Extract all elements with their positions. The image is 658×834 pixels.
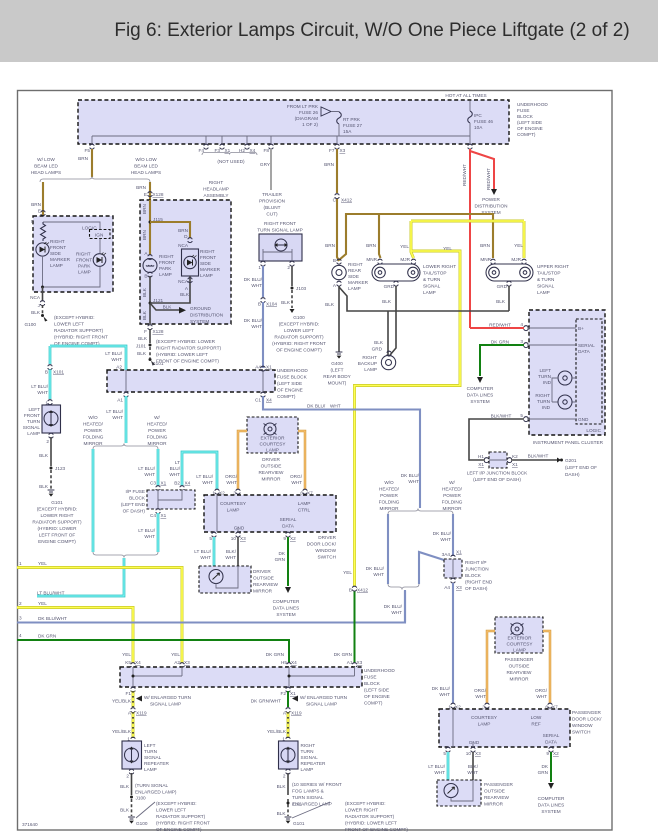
svg-text:BLK/: BLK/ (226, 549, 237, 554)
svg-text:LAMP: LAMP (78, 270, 91, 275)
wire BLK lamp to J123/G101 (49, 433, 53, 438)
svg-text:GRD: GRD (384, 284, 395, 289)
svg-text:6: 6 (300, 491, 303, 496)
svg-text:X128: X128 (153, 329, 164, 334)
svg-text:(LEFT END: (LEFT END (121, 502, 146, 507)
svg-text:LAMP: LAMP (50, 263, 63, 268)
wire BRN bus to tail lamps (339, 214, 493, 260)
svg-text:LT BLU/: LT BLU/ (138, 466, 155, 471)
svg-text:RED/WHT: RED/WHT (489, 323, 511, 328)
svg-text:LT BLU/: LT BLU/ (106, 409, 123, 414)
svg-text:WHT: WHT (200, 555, 211, 560)
svg-text:NCA: NCA (178, 279, 189, 284)
svg-text:(EXCEPT HYBRID:: (EXCEPT HYBRID: (54, 315, 95, 320)
svg-text:5: 5 (209, 536, 212, 541)
box courtesy lamp / lamp ctrl (driver door switch) (204, 495, 336, 532)
svg-text:SIGNAL LAMP: SIGNAL LAMP (150, 702, 181, 707)
svg-text:YEL: YEL (122, 652, 131, 657)
lamp right turn indicator (558, 395, 572, 409)
svg-text:F1: F1 (126, 691, 132, 696)
svg-text:REPEATER: REPEATER (301, 761, 327, 766)
stubs (261, 261, 265, 266)
wire branch w/ heated to C3 (157, 449, 160, 486)
svg-text:DK BLU/: DK BLU/ (244, 318, 263, 323)
svg-text:4: 4 (19, 633, 22, 638)
stub C1/X4 bottom right (261, 392, 265, 397)
svg-text:DK GRN: DK GRN (491, 340, 509, 345)
svg-text:G101: G101 (51, 500, 63, 505)
svg-text:PASSENGER: PASSENGER (484, 782, 513, 787)
svg-text:UNDERHOOD: UNDERHOOD (277, 368, 308, 373)
svg-text:BRN: BRN (366, 243, 376, 248)
brace split head lamps (40, 177, 150, 183)
wire LT BLU/WHT pin5 to mirror (213, 537, 216, 566)
svg-text:TURN: TURN (27, 419, 40, 424)
svg-text:LAMP: LAMP (513, 648, 526, 653)
wire DK GRN pin9 to data lines (550, 752, 552, 782)
box passenger outside rearview mirror (437, 780, 481, 806)
svg-text:MIRROR: MIRROR (261, 477, 281, 482)
svg-text:OUTSIDE: OUTSIDE (253, 576, 274, 581)
svg-text:F5: F5 (85, 148, 91, 153)
wire BLK J121 branch to ground dist arrow (150, 303, 179, 310)
svg-text:LT BLU/: LT BLU/ (105, 351, 122, 356)
svg-text:WINDOW: WINDOW (572, 723, 593, 728)
svg-text:FRONT: FRONT (24, 413, 40, 418)
svg-text:BRN: BRN (324, 162, 334, 167)
svg-text:OUTSIDE: OUTSIDE (484, 789, 505, 794)
svg-text:WHT: WHT (251, 324, 262, 329)
svg-text:X128: X128 (153, 192, 164, 197)
svg-text:TRAILER: TRAILER (262, 192, 282, 197)
svg-text:X3: X3 (240, 536, 246, 541)
svg-text:WHT: WHT (169, 472, 180, 477)
wire BLK ground bus of tail lamps (339, 286, 509, 355)
wire fuse 27 to bus (338, 124, 340, 136)
svg-text:G201: G201 (565, 458, 577, 463)
bottom stubs (446, 747, 450, 752)
svg-text:HEAD LAMPS: HEAD LAMPS (131, 170, 161, 175)
svg-text:X1: X1 (266, 365, 272, 370)
svg-text:MARKER: MARKER (348, 280, 369, 285)
svg-text:YEL: YEL (38, 601, 47, 606)
box right front turn signal lamp (259, 234, 302, 261)
svg-text:C3: C3 (150, 481, 156, 486)
wire branch w/ heated into junction block (452, 514, 454, 556)
svg-text:GRY: GRY (260, 162, 271, 167)
bus drops F5,F4,F3/X1,H2/X4,F8,F7 (92, 136, 337, 144)
svg-text:YEL: YEL (443, 246, 452, 251)
svg-text:JUNCTION: JUNCTION (465, 567, 489, 572)
svg-text:GRD: GRD (497, 284, 508, 289)
svg-text:YEL/BLK: YEL/BLK (112, 699, 132, 704)
svg-text:X3: X3 (456, 585, 462, 590)
svg-text:DK GRN: DK GRN (266, 652, 284, 657)
svg-text:SIGNAL: SIGNAL (301, 755, 319, 760)
svg-text:LAMP: LAMP (27, 431, 40, 436)
svg-text:FUSE BLOCK: FUSE BLOCK (277, 375, 308, 380)
svg-text:SYSTEM: SYSTEM (541, 809, 560, 814)
svg-text:(BLUNT: (BLUNT (264, 205, 281, 210)
svg-text:15A: 15A (343, 129, 352, 134)
svg-text:X119: X119 (291, 711, 302, 716)
svg-text:LEFT: LEFT (29, 407, 41, 412)
svg-text:HEATED/: HEATED/ (442, 487, 463, 492)
svg-text:BLK: BLK (120, 808, 130, 813)
svg-text:(DIAGRAM: (DIAGRAM (295, 116, 319, 121)
svg-text:J: J (38, 303, 40, 308)
wire YEL tail lamp bus (355, 221, 525, 586)
svg-text:2: 2 (126, 774, 129, 779)
svg-text:WHT: WHT (225, 555, 236, 560)
svg-text:DK GRN: DK GRN (334, 652, 352, 657)
svg-text:RIGHT RADIATOR SUPPORT): RIGHT RADIATOR SUPPORT) (156, 346, 221, 351)
svg-text:G100: G100 (25, 322, 37, 327)
svg-text:(EXCEPT HYBRID: LOWER: (EXCEPT HYBRID: LOWER (156, 339, 216, 344)
svg-text:BEAM LED: BEAM LED (34, 164, 58, 169)
svg-text:C4: C4 (150, 513, 156, 518)
svg-text:FUSE: FUSE (517, 108, 530, 113)
svg-text:FOLDING: FOLDING (147, 435, 168, 440)
courtesy lamp symbol (264, 423, 276, 435)
wire BLK/WHT cluster gnd (469, 419, 524, 460)
svg-text:DK BLU/: DK BLU/ (307, 404, 326, 409)
svg-text:LAMP: LAMP (364, 367, 377, 372)
svg-text:H1: H1 (478, 454, 484, 459)
svg-text:W/O LOW: W/O LOW (135, 157, 157, 162)
svg-text:BRN: BRN (142, 230, 147, 240)
svg-text:HEATED/: HEATED/ (379, 487, 400, 492)
svg-text:3: 3 (520, 339, 523, 344)
arrow computer data lines (477, 377, 483, 383)
box exterior courtesy lamp (passenger) (495, 617, 543, 653)
svg-text:X1: X1 (478, 462, 484, 467)
svg-text:CTRL: CTRL (298, 508, 311, 513)
svg-text:SWITCH: SWITCH (572, 730, 591, 735)
svg-text:B: B (144, 274, 147, 279)
svg-text:GROUND: GROUND (190, 306, 211, 311)
svg-text:W/ LOW: W/ LOW (37, 157, 55, 162)
svg-text:IGN: IGN (95, 233, 103, 238)
svg-text:TAIL/STOP: TAIL/STOP (423, 271, 447, 276)
svg-text:DK BLU/: DK BLU/ (433, 531, 452, 536)
svg-text:REARVIEW: REARVIEW (259, 470, 284, 475)
svg-text:(EXCEPT HYBRID:: (EXCEPT HYBRID: (345, 801, 386, 806)
svg-text:G100: G100 (293, 315, 305, 320)
svg-text:BACKUP: BACKUP (358, 361, 377, 366)
arrow w/ enlarged turn signal lamp (right) (292, 696, 298, 702)
box left turn signal repeater lamp (122, 741, 142, 769)
arrow w/ enlarged turn signal lamp (left) (136, 696, 142, 702)
connector A X119 (left) (131, 708, 135, 713)
svg-text:LAMP: LAMP (144, 767, 157, 772)
svg-text:ENGINE COMPT): ENGINE COMPT) (38, 539, 76, 544)
svg-text:DASH): DASH) (565, 472, 580, 477)
svg-text:REARVIEW: REARVIEW (484, 795, 509, 800)
svg-text:A1: A1 (117, 398, 123, 403)
resistor zigzag (41, 222, 46, 241)
box left front turn signal lamp (42, 405, 61, 433)
svg-text:UNDERHOOD: UNDERHOOD (364, 668, 395, 673)
svg-text:BLK: BLK (31, 310, 41, 315)
brace mirror merge (left) (93, 552, 158, 558)
svg-text:ORG/: ORG/ (535, 688, 548, 693)
pointer line to G101 (292, 802, 330, 818)
svg-text:ASSEMBLY: ASSEMBLY (204, 193, 230, 198)
svg-text:YEL/BLK: YEL/BLK (112, 729, 132, 734)
svg-text:LAMP: LAMP (227, 508, 240, 513)
wire DK BLU/WHT C1 across to mirrors (263, 396, 420, 508)
svg-text:MIRROR: MIRROR (509, 677, 529, 682)
wire DK GRN pin9 to data lines (287, 537, 289, 586)
svg-text:PASSENGER: PASSENGER (505, 657, 534, 662)
svg-text:LAMP: LAMP (301, 767, 314, 772)
wire BRN branch J115 to side marker (150, 222, 190, 238)
svg-text:E: E (38, 209, 41, 214)
box underhood fuse block bar 2 (120, 667, 362, 687)
(NOT USED) bracket (202, 153, 257, 156)
svg-text:X3: X3 (184, 660, 190, 665)
svg-text:RADIATOR SUPPORT): RADIATOR SUPPORT) (54, 328, 104, 333)
svg-text:LEFT: LEFT (540, 368, 552, 373)
svg-text:DOOR LOCK/: DOOR LOCK/ (307, 542, 337, 547)
svg-text:MIRROR: MIRROR (442, 506, 462, 511)
wire BLK LED to J121 (150, 276, 190, 303)
box inner LED side marker (182, 249, 199, 276)
svg-text:YEL: YEL (343, 570, 352, 575)
svg-text:EXTERIOR: EXTERIOR (508, 636, 533, 641)
svg-text:REAR BODY: REAR BODY (323, 374, 351, 379)
svg-text:J103: J103 (296, 286, 307, 291)
svg-text:(EXCEPT HYBRID:: (EXCEPT HYBRID: (156, 801, 197, 806)
svg-text:FRONT: FRONT (159, 260, 175, 265)
wire LT BLU/WHT pin5 to passenger mirror (447, 752, 450, 780)
stub F1 (131, 687, 135, 692)
svg-text:LAMP: LAMP (423, 290, 436, 295)
wire BLK to G101 (right repeater) (286, 769, 290, 774)
svg-text:RIGHT: RIGHT (50, 239, 65, 244)
svg-text:SYSTEM: SYSTEM (276, 612, 295, 617)
svg-text:WHT: WHT (475, 694, 486, 699)
svg-text:FUSE 27: FUSE 27 (343, 123, 362, 128)
svg-text:COURTESY: COURTESY (260, 442, 287, 447)
box driver outside rearview mirror (199, 566, 251, 593)
svg-text:(EXCEPT HYBRID:: (EXCEPT HYBRID: (279, 322, 320, 327)
svg-text:SIDE: SIDE (200, 261, 211, 266)
svg-text:LOWER RIGHT: LOWER RIGHT (423, 264, 456, 269)
wire BLK/WHT pin10 to mirror (237, 537, 239, 566)
wire DK BLU/WHT from pin1 (262, 266, 264, 297)
svg-text:X4: X4 (291, 660, 297, 665)
triangle off-page symbol (321, 107, 331, 116)
svg-text:X3: X3 (475, 751, 481, 756)
svg-text:BLK: BLK (281, 300, 291, 305)
svg-text:B: B (349, 588, 352, 593)
svg-text:GND: GND (234, 526, 245, 531)
svg-text:REF: REF (531, 722, 541, 727)
box right I/P junction block (451, 555, 455, 560)
svg-text:J123: J123 (55, 466, 66, 471)
underhood fuse block box (78, 100, 509, 144)
svg-text:FRONT: FRONT (76, 258, 92, 263)
lamp lower right tail/stop (378, 259, 382, 264)
svg-text:DATA: DATA (578, 349, 591, 354)
svg-text:(HYBRID: RIGHT FRONT: (HYBRID: RIGHT FRONT (156, 821, 210, 826)
svg-text:POWER: POWER (84, 428, 102, 433)
svg-text:LAMP: LAMP (298, 501, 311, 506)
svg-text:LAMP: LAMP (200, 273, 213, 278)
svg-text:RIGHT: RIGHT (209, 180, 224, 185)
wire BRN to side marker box (42, 182, 44, 226)
svg-text:TURN: TURN (301, 749, 314, 754)
wire ORG/WHT right (passenger) (543, 631, 550, 703)
svg-text:X119: X119 (136, 711, 147, 716)
svg-text:DOOR LOCK/: DOOR LOCK/ (572, 717, 602, 722)
svg-text:E: E (144, 192, 147, 197)
box right front side marker / park lamp (left) (33, 216, 113, 292)
svg-text:X4: X4 (266, 398, 272, 403)
svg-text:X1: X1 (161, 481, 167, 486)
svg-text:A4: A4 (255, 365, 261, 370)
svg-text:SERIAL: SERIAL (578, 343, 595, 348)
svg-text:FUSE 46: FUSE 46 (474, 119, 493, 124)
svg-text:LAMP: LAMP (266, 448, 279, 453)
svg-text:POWER: POWER (443, 493, 461, 498)
svg-text:RIGHT: RIGHT (301, 743, 316, 748)
svg-text:POWER: POWER (148, 428, 166, 433)
svg-text:YEL: YEL (400, 244, 409, 249)
svg-text:SIGNAL: SIGNAL (537, 284, 555, 289)
wire DK GRN serial data (480, 345, 524, 376)
svg-text:9: 9 (283, 536, 286, 541)
svg-text:DISTRIBUTION: DISTRIBUTION (190, 313, 223, 318)
wire BLK to G100 (left repeater) (129, 769, 133, 774)
svg-text:WHT: WHT (536, 694, 547, 699)
LED right front side marker lamp (36, 243, 49, 256)
svg-text:PROVISION: PROVISION (259, 199, 285, 204)
svg-text:YEL: YEL (38, 561, 47, 566)
svg-text:W/: W/ (449, 480, 455, 485)
svg-text:LT BLU/: LT BLU/ (196, 474, 213, 479)
svg-text:BRN: BRN (142, 204, 147, 214)
svg-text:& TURN: & TURN (537, 277, 554, 282)
svg-text:REAR: REAR (348, 268, 362, 273)
svg-text:CUT): CUT) (266, 212, 278, 217)
svg-text:WHT: WHT (202, 480, 213, 485)
svg-text:DATA: DATA (545, 740, 558, 745)
brace mirror merge (right) (388, 584, 419, 590)
wire LT BLU/WHT X101 to left turn lamp (50, 346, 126, 370)
svg-text:(LEFT SIDE: (LEFT SIDE (277, 381, 302, 386)
svg-text:BLK: BLK (277, 811, 287, 816)
svg-text:DATA LINES: DATA LINES (538, 803, 564, 808)
svg-text:(LEFT END OF DASH): (LEFT END OF DASH) (473, 477, 521, 482)
wire triangle to fuse 27 (331, 111, 339, 114)
svg-text:RADIATOR SUPPORT): RADIATOR SUPPORT) (156, 814, 206, 819)
svg-text:WHT: WHT (434, 770, 445, 775)
svg-text:WHT: WHT (373, 572, 384, 577)
svg-text:(RIGHT END: (RIGHT END (465, 580, 493, 585)
svg-text:& TURN: & TURN (423, 277, 440, 282)
svg-text:J100: J100 (136, 796, 147, 801)
svg-text:IND: IND (542, 405, 551, 410)
connector bumps under box (90, 144, 94, 149)
svg-text:HEAD LAMPS: HEAD LAMPS (31, 170, 61, 175)
svg-text:WHT: WHT (144, 534, 155, 539)
wire ORG/WHT left (238, 431, 247, 489)
LED right front park lamp (93, 254, 106, 267)
svg-text:BRN: BRN (178, 228, 188, 233)
svg-text:INSTRUMENT PANEL CLUSTER: INSTRUMENT PANEL CLUSTER (533, 440, 604, 445)
svg-text:X4: X4 (185, 481, 191, 486)
svg-text:DATA: DATA (282, 524, 295, 529)
svg-text:(LEFT END OF: (LEFT END OF (565, 465, 597, 470)
svg-text:5: 5 (443, 751, 446, 756)
svg-text:MNR: MNR (366, 257, 377, 262)
svg-text:BLK/WHT: BLK/WHT (528, 454, 549, 459)
svg-text:C1: C1 (255, 398, 261, 403)
svg-text:COURTESY: COURTESY (471, 715, 498, 720)
svg-text:DK BLU/: DK BLU/ (244, 277, 263, 282)
svg-text:COMPUTER: COMPUTER (538, 796, 565, 801)
svg-text:(HYBRID: LOWER LEFT: (HYBRID: LOWER LEFT (156, 352, 208, 357)
svg-text:(TURN SIGNAL: (TURN SIGNAL (135, 783, 168, 788)
svg-text:MARKER: MARKER (50, 257, 71, 262)
svg-text:WINDOW: WINDOW (315, 548, 336, 553)
svg-text:SERIAL: SERIAL (280, 517, 297, 522)
svg-text:IND: IND (543, 380, 552, 385)
svg-text:A4: A4 (444, 585, 450, 590)
svg-text:WHT: WHT (291, 480, 302, 485)
pointer line to G100 (136, 802, 155, 818)
svg-text:W/ ENLARGED TURN: W/ ENLARGED TURN (144, 695, 191, 700)
box right headlamp assembly (140, 200, 231, 324)
lamp left turn indicator (558, 371, 572, 385)
svg-text:WHT: WHT (112, 415, 123, 420)
wire BLK from pin2 to G100 (291, 266, 293, 286)
svg-text:HEADLAMP: HEADLAMP (203, 187, 229, 192)
svg-text:X2: X2 (553, 751, 559, 756)
svg-text:10: 10 (466, 751, 472, 756)
svg-text:FUSE 26: FUSE 26 (299, 110, 318, 115)
svg-text:TURN SIGNAL: TURN SIGNAL (292, 795, 324, 800)
fuse RT PRK FUSE 27 (337, 112, 342, 124)
svg-text:OF ENGINE: OF ENGINE (517, 126, 543, 131)
svg-text:DATA LINES: DATA LINES (467, 393, 493, 398)
wire RED/WHT branch to power distribution (470, 151, 494, 189)
wire DK GRN from X412 to A1 (354, 591, 356, 663)
svg-text:BLK: BLK (137, 351, 147, 356)
wire BRN to headlamp assembly (149, 182, 151, 200)
svg-text:BRN: BRN (78, 156, 88, 161)
box underhood fuse block bar 1 (107, 370, 275, 392)
svg-text:LOWER RIGHT: LOWER RIGHT (40, 513, 73, 518)
svg-text:DK BLU/: DK BLU/ (401, 473, 420, 478)
svg-text:LOW: LOW (531, 715, 542, 720)
svg-text:DK: DK (278, 551, 285, 556)
svg-text:OUTSIDE: OUTSIDE (509, 664, 530, 669)
svg-text:(LEFT SIDE: (LEFT SIDE (517, 120, 542, 125)
svg-text:UNDERHOOD: UNDERHOOD (517, 102, 548, 107)
svg-text:371640: 371640 (22, 822, 38, 827)
svg-text:LOWER LEFT: LOWER LEFT (156, 808, 186, 813)
svg-text:REARVIEW: REARVIEW (253, 582, 278, 587)
svg-text:3: 3 (482, 705, 485, 710)
svg-text:LAMP: LAMP (159, 272, 172, 277)
svg-text:SWITCH: SWITCH (318, 555, 337, 560)
svg-text:RADIATOR SUPPORT): RADIATOR SUPPORT) (32, 520, 82, 525)
wire BRN inside to J115 (149, 200, 151, 255)
